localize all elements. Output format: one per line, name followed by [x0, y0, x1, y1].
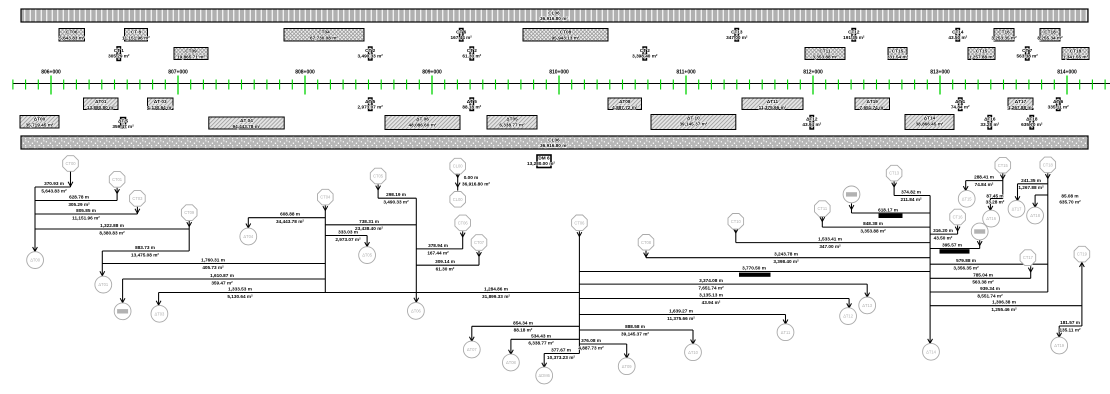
wire CT19 vertical — [1080, 263, 1085, 326]
plan narrow box ΔT12 — [802, 116, 821, 130]
svg-text:305.29 m²: 305.29 m² — [108, 53, 130, 58]
wire 87.45m run to DT16 — [986, 194, 1005, 211]
node ΔT06 — [408, 303, 425, 320]
svg-text:1,284.86 m: 1,284.86 m — [484, 287, 508, 292]
svg-text:CL00: CL00 — [453, 197, 464, 202]
svg-text:ΔT18: ΔT18 — [1026, 117, 1038, 122]
node BM3 — [971, 223, 988, 240]
plan box CT15 — [968, 48, 995, 60]
plan narrow box CT 2 — [358, 47, 384, 60]
svg-text:ΔT 1: ΔT 1 — [955, 99, 966, 104]
wire 3374.08m run to DT13 — [579, 278, 869, 297]
svg-text:3,135.13 m: 3,135.13 m — [699, 293, 723, 298]
wire 1333.53m / 1284.86m long run — [156, 287, 579, 306]
svg-text:ΔT 03: ΔT 03 — [154, 99, 167, 104]
svg-text:377.67 m: 377.67 m — [551, 348, 571, 353]
wire 1306.38m run — [930, 300, 1082, 312]
wire 939.34m run — [930, 286, 1048, 298]
plan box ΔT 03 — [148, 98, 174, 110]
svg-text:3,398.40 m²: 3,398.40 m² — [632, 54, 658, 59]
svg-text:CT04: CT04 — [320, 195, 331, 200]
svg-text:ΔT05: ΔT05 — [506, 117, 518, 122]
node ΔT05 — [359, 247, 376, 264]
svg-text:CT 7: CT 7 — [1022, 48, 1033, 53]
wire 181.57m run to DT19 — [1057, 320, 1082, 337]
svg-text:167.44 m²: 167.44 m² — [451, 35, 473, 40]
wire 618.17m run to BM1 + black bar — [849, 203, 930, 218]
svg-text:806+000: 806+000 — [41, 70, 61, 76]
svg-text:ΔT01: ΔT01 — [98, 282, 109, 287]
svg-text:ΔT08: ΔT08 — [619, 99, 631, 104]
svg-text:36,916.80 m²: 36,916.80 m² — [462, 181, 490, 186]
bottom corridor bar CL06 — [21, 136, 1088, 149]
svg-text:ΔT 5: ΔT 5 — [365, 99, 376, 104]
wire 534.43m run to DT08 — [509, 333, 580, 354]
node CT09 — [181, 205, 197, 221]
svg-text:8,380.83 m²: 8,380.83 m² — [99, 230, 125, 235]
svg-text:39,145.37 m²: 39,145.37 m² — [621, 331, 649, 336]
svg-text:ΔT16: ΔT16 — [984, 117, 996, 122]
svg-text:ΔT16: ΔT16 — [986, 216, 997, 221]
node CT17 — [1020, 250, 1036, 266]
svg-text:1,257.88 m²: 1,257.88 m² — [969, 54, 995, 59]
wire left bus to DT00 — [33, 187, 38, 251]
svg-text:1,610.87 m: 1,610.87 m — [210, 273, 234, 278]
svg-text:CT06: CT06 — [66, 30, 78, 35]
node ΔT01 — [95, 276, 112, 293]
svg-text:2,973.07 m²: 2,973.07 m² — [335, 237, 361, 242]
svg-text:39,145.37 m²: 39,145.37 m² — [679, 121, 707, 126]
svg-text:33.28 m²: 33.28 m² — [980, 122, 999, 127]
svg-text:88.18 m²: 88.18 m² — [514, 328, 533, 333]
plan narrow box CT12 — [843, 29, 865, 42]
svg-text:1,322.88 m: 1,322.88 m — [100, 223, 124, 228]
svg-text:95,943.13 m²: 95,943.13 m² — [552, 35, 580, 40]
svg-text:1,306.38 m: 1,306.38 m — [992, 300, 1016, 305]
plan box CT09 — [174, 48, 208, 60]
top corridor bar CL06 — [21, 9, 1088, 22]
wire CT00 drop + 370.93m run — [35, 172, 73, 194]
node CT19 — [1074, 246, 1090, 262]
svg-text:813+000: 813+000 — [930, 70, 950, 76]
svg-text:43.50 m²: 43.50 m² — [948, 35, 967, 40]
svg-text:CT15: CT15 — [976, 49, 988, 54]
node ΔDM6 — [536, 367, 553, 384]
wire mid bus to DT06 — [414, 198, 419, 302]
svg-text:883.73 m: 883.73 m — [135, 245, 155, 250]
wire 3770.50m run + black bar — [579, 266, 930, 277]
wire CT03 drop + 805.85m run — [35, 207, 140, 221]
svg-text:181.57 m: 181.57 m — [1060, 320, 1080, 325]
svg-text:618.17 m: 618.17 m — [878, 207, 898, 212]
svg-text:808+000: 808+000 — [295, 70, 315, 76]
svg-text:CT06: CT06 — [458, 221, 469, 226]
svg-text:305.29 m²: 305.29 m² — [68, 202, 90, 207]
svg-text:87.45 m: 87.45 m — [986, 194, 1003, 199]
plan narrow box CT14 — [948, 29, 967, 42]
svg-text:635.70 m²: 635.70 m² — [1021, 122, 1043, 127]
wire CT09 drop — [187, 221, 192, 251]
svg-text:CT 1: CT 1 — [114, 48, 125, 53]
wire 1322.88m run — [35, 223, 189, 235]
svg-text:CT10: CT10 — [731, 219, 742, 224]
wire CT04 drop — [323, 206, 328, 293]
svg-text:CL06: CL06 — [548, 138, 560, 143]
node CT01 — [109, 172, 125, 188]
svg-text:CT03: CT03 — [132, 196, 143, 201]
svg-text:5,643.83 m²: 5,643.83 m² — [59, 35, 85, 40]
plan box ΔT08 — [608, 98, 642, 110]
svg-text:CT 2: CT 2 — [467, 48, 478, 53]
svg-text:ΔT18: ΔT18 — [1030, 213, 1041, 218]
wire CT06 drop + 378.94m run — [416, 231, 465, 255]
svg-text:11,151.96 m²: 11,151.96 m² — [122, 35, 150, 40]
node CT04 — [318, 189, 334, 205]
wire CT10 drop + 1533.41m run — [733, 229, 930, 249]
wire CT18 vertical — [1045, 173, 1050, 292]
svg-text:43.94 m²: 43.94 m² — [702, 300, 721, 305]
svg-text:1,333.53 m: 1,333.53 m — [228, 287, 252, 292]
svg-text:8,551.74 m²: 8,551.74 m² — [977, 293, 1003, 298]
svg-text:88.18 m²: 88.18 m² — [462, 105, 481, 110]
svg-text:ΔT14: ΔT14 — [924, 116, 936, 121]
plan box CT04 — [284, 29, 364, 42]
node BM2 — [114, 303, 131, 320]
svg-text:61.30 m²: 61.30 m² — [462, 54, 481, 59]
wire central CT06 drop — [577, 231, 582, 353]
svg-text:ΔT08: ΔT08 — [506, 360, 517, 365]
svg-text:4,887.73 m²: 4,887.73 m² — [578, 345, 604, 350]
wire 854.34m run to DT07 — [469, 320, 579, 341]
svg-text:3,243.78 m: 3,243.78 m — [774, 252, 798, 257]
wire 738.31m run — [325, 219, 416, 231]
svg-text:6,338.77 m²: 6,338.77 m² — [499, 122, 525, 127]
svg-text:309.14 m: 309.14 m — [435, 259, 455, 264]
svg-text:19,865.71 m²: 19,865.71 m² — [177, 54, 205, 59]
svg-text:1,267.88 m²: 1,267.88 m² — [1018, 185, 1044, 190]
node ΔT10 — [685, 344, 702, 361]
svg-text:94,443.78 m²: 94,443.78 m² — [233, 124, 261, 129]
wire 1639.27m run to DT11 — [579, 309, 788, 324]
svg-text:74.84 m²: 74.84 m² — [951, 105, 970, 110]
node BM1 — [843, 186, 860, 203]
plan box CT18 — [1062, 48, 1089, 60]
plan narrow box ΔT 1 — [951, 98, 970, 111]
svg-text:ΔT11: ΔT11 — [767, 99, 779, 104]
svg-text:628.78 m: 628.78 m — [69, 195, 89, 200]
svg-text:ΔT17: ΔT17 — [1012, 207, 1023, 212]
svg-text:888.58 m: 888.58 m — [625, 324, 645, 329]
node ΔT14 — [923, 343, 940, 360]
svg-text:CT11: CT11 — [817, 206, 827, 211]
plan box CT06 — [59, 29, 85, 42]
svg-text:CT18: CT18 — [1043, 163, 1054, 168]
wire 579.88m run — [930, 258, 1048, 270]
svg-text:534.43 m: 534.43 m — [531, 333, 551, 338]
plan narrow box ΔT 5 — [358, 98, 384, 111]
svg-text:ΔT 5: ΔT 5 — [118, 119, 129, 124]
svg-text:ΔT12: ΔT12 — [843, 314, 854, 319]
svg-text:ΔT00: ΔT00 — [30, 258, 41, 263]
svg-text:939.34 m: 939.34 m — [980, 286, 1000, 291]
svg-text:CT00: CT00 — [65, 161, 76, 166]
svg-text:331.54 m²: 331.54 m² — [887, 54, 909, 59]
svg-text:335.11 m²: 335.11 m² — [1048, 105, 1070, 110]
svg-text:812+000: 812+000 — [803, 70, 823, 76]
wire 395.57m run to BM3 + black bar — [930, 240, 982, 254]
svg-text:805.85 m: 805.85 m — [76, 208, 96, 213]
node ΔT13 — [859, 297, 876, 314]
svg-text:8,255.34 m²: 8,255.34 m² — [1037, 35, 1063, 40]
svg-text:1,267.88 m²: 1,267.88 m² — [1008, 105, 1034, 110]
svg-text:13,475.08 m²: 13,475.08 m² — [131, 252, 159, 257]
svg-text:1,255.46 m²: 1,255.46 m² — [991, 307, 1017, 312]
svg-text:CT09: CT09 — [184, 210, 195, 215]
svg-text:DM 6: DM 6 — [538, 156, 550, 161]
svg-text:36,916.80 m²: 36,916.80 m² — [540, 143, 568, 148]
svg-text:635.70 m²: 635.70 m² — [1059, 199, 1081, 204]
svg-text:CT17: CT17 — [1023, 255, 1034, 260]
wire CT15 drop — [1000, 174, 1005, 199]
svg-text:ΔT07: ΔT07 — [467, 347, 478, 352]
plan box ΔT01 — [84, 98, 119, 110]
node CT10 — [728, 214, 744, 230]
svg-text:359.47 m²: 359.47 m² — [112, 124, 134, 129]
svg-text:1,130.64 m²: 1,130.64 m² — [148, 105, 174, 110]
svg-text:CL00: CL00 — [453, 164, 464, 169]
svg-text:CT 8: CT 8 — [131, 30, 142, 35]
svg-text:5,130.64 m²: 5,130.64 m² — [227, 294, 253, 299]
node ΔT18 — [1027, 207, 1044, 224]
node ΔT15 — [958, 190, 975, 207]
svg-text:ΔT05: ΔT05 — [362, 253, 373, 258]
svg-text:CT 2: CT 2 — [640, 48, 651, 53]
plan narrow box CT 2 — [462, 47, 481, 60]
plan box ΔT19 — [855, 98, 890, 110]
node CT15 — [995, 157, 1011, 173]
svg-text:ΔT14: ΔT14 — [926, 349, 937, 354]
svg-text:7,651.74 m²: 7,651.74 m² — [860, 105, 886, 110]
plan box CT18 — [1037, 29, 1063, 42]
svg-text:CT13: CT13 — [889, 171, 900, 176]
svg-text:6,338.77 m²: 6,338.77 m² — [528, 341, 554, 346]
svg-text:298.19 m: 298.19 m — [386, 192, 406, 197]
plan narrow box CT 7 — [1017, 47, 1039, 60]
svg-text:333.03 m: 333.03 m — [338, 230, 358, 235]
svg-text:316.20 m: 316.20 m — [933, 228, 953, 233]
wire 1760.31m run — [102, 258, 325, 270]
wire 1610.87m run to BM2 — [120, 273, 325, 303]
plan box ΔT05 — [487, 116, 537, 130]
node ΔT00 — [27, 252, 44, 269]
svg-text:ΔT03: ΔT03 — [155, 311, 166, 316]
svg-text:3,374.08 m: 3,374.08 m — [699, 278, 723, 283]
svg-text:405.73 m²: 405.73 m² — [202, 265, 224, 270]
plan narrow box ΔT 5 — [462, 98, 481, 111]
svg-text:CT13: CT13 — [731, 30, 743, 35]
plan box ΔT17 — [1008, 98, 1034, 110]
wire 377.67m run to DM6 — [542, 348, 580, 368]
plan box CT 8 — [122, 29, 150, 42]
node ΔT09 — [618, 358, 635, 375]
svg-text:11,375.66 m²: 11,375.66 m² — [759, 105, 787, 110]
svg-text:809+000: 809+000 — [422, 70, 442, 76]
svg-text:3,490.33 m²: 3,490.33 m² — [383, 200, 409, 205]
plan narrow box CT 1 — [108, 47, 130, 61]
svg-text:785.04 m: 785.04 m — [973, 272, 993, 277]
plan narrow box ΔT 6 — [1048, 98, 1070, 111]
svg-text:CT18: CT18 — [1070, 49, 1082, 54]
svg-text:ΔT 06: ΔT 06 — [416, 117, 429, 122]
svg-text:738.31 m: 738.31 m — [359, 219, 379, 224]
svg-text:43.50 m²: 43.50 m² — [934, 236, 953, 241]
node CT06 — [572, 215, 588, 231]
svg-text:CT05: CT05 — [373, 174, 384, 179]
svg-text:31,899.33 m²: 31,899.33 m² — [482, 294, 510, 299]
wire CT05 drop + 298.19m run — [376, 184, 417, 204]
svg-text:CT12: CT12 — [848, 30, 860, 35]
wire 376.08m run to DT09 — [578, 338, 629, 358]
svg-text:ΔT 10: ΔT 10 — [687, 116, 700, 121]
node CL00 — [450, 192, 466, 208]
plan box CT08 — [523, 29, 608, 42]
wire right bus to DT14 — [928, 196, 933, 344]
centerline / chainage axis — [13, 83, 1110, 85]
node CT08 — [638, 235, 654, 251]
wire 3135.13m run to DT12 — [579, 293, 851, 308]
svg-text:CT18: CT18 — [1044, 30, 1056, 35]
svg-text:ΔT10: ΔT10 — [688, 350, 699, 355]
node ΔT11 — [777, 324, 794, 341]
svg-text:3,770.50 m: 3,770.50 m — [742, 266, 766, 271]
wire CT08 drop + 3243.78m run — [644, 251, 931, 264]
svg-text:ΔT09: ΔT09 — [622, 364, 633, 369]
svg-text:11,375.66 m²: 11,375.66 m² — [667, 316, 695, 321]
svg-text:CT15: CT15 — [892, 49, 904, 54]
wire CT07 drop + 309.14m run — [416, 251, 481, 272]
svg-text:347.00 m²: 347.00 m² — [726, 35, 748, 40]
wire CT01 drop + 628.78m run — [35, 188, 120, 207]
plan box ΔT14 — [905, 115, 954, 130]
station labels — [41, 70, 1077, 76]
wire CT16 drop + 316.20m run — [930, 226, 960, 241]
svg-text:ΔT04: ΔT04 — [243, 234, 254, 239]
svg-text:CT08: CT08 — [560, 30, 572, 35]
svg-text:848.38 m: 848.38 m — [863, 221, 883, 226]
svg-text:288.41 m: 288.41 m — [974, 175, 994, 180]
svg-text:167.44 m²: 167.44 m² — [427, 250, 449, 255]
node CT06 — [455, 215, 471, 231]
node CL00 — [450, 158, 466, 174]
svg-text:135.11 m²: 135.11 m² — [1059, 327, 1081, 332]
plan box ΔT 04 — [209, 117, 284, 129]
svg-text:35,719.45 m²: 35,719.45 m² — [26, 122, 54, 127]
svg-text:191.35 m²: 191.35 m² — [843, 35, 865, 40]
svg-text:ΔT13: ΔT13 — [862, 303, 873, 308]
svg-text:7,651.74 m²: 7,651.74 m² — [698, 286, 724, 291]
node ΔT08 — [503, 354, 520, 371]
wire 608.88m run to DT04 — [246, 212, 325, 228]
wire CT11 drop + 848.38m run — [820, 217, 930, 234]
svg-text:CT15: CT15 — [998, 163, 1009, 168]
svg-text:CT16: CT16 — [953, 215, 964, 220]
svg-text:374.82 m: 374.82 m — [901, 190, 921, 195]
svg-text:33.28 m²: 33.28 m² — [986, 200, 1005, 205]
svg-text:ΔT 5: ΔT 5 — [467, 99, 478, 104]
node CT00 — [63, 156, 79, 172]
plan box CT11 — [805, 48, 845, 60]
svg-text:CT16: CT16 — [998, 30, 1010, 35]
svg-text:85.08 m: 85.08 m — [1061, 193, 1078, 198]
node CT18 — [1040, 157, 1056, 173]
svg-text:CT 2: CT 2 — [365, 48, 376, 53]
svg-text:1,760.31 m: 1,760.31 m — [201, 258, 225, 263]
svg-text:11,151.96 m²: 11,151.96 m² — [72, 215, 100, 220]
node CT03 — [130, 191, 146, 207]
svg-text:ΔT 6: ΔT 6 — [1053, 99, 1064, 104]
plan box ΔT11 — [742, 98, 803, 110]
svg-text:4,887.72 m²: 4,887.72 m² — [612, 105, 638, 110]
plan box DM 6 — [527, 155, 555, 168]
svg-text:376.08 m: 376.08 m — [581, 338, 601, 343]
node CT05 — [370, 168, 386, 184]
svg-text:ΔT19: ΔT19 — [866, 99, 878, 104]
wire run to DT18 — [1033, 193, 1081, 207]
svg-text:ΔT19: ΔT19 — [1054, 343, 1065, 348]
svg-text:3,353.88 m²: 3,353.88 m² — [860, 229, 886, 234]
svg-text:23,438.40 m²: 23,438.40 m² — [355, 226, 383, 231]
plan box ΔT00 — [20, 116, 59, 129]
svg-text:CT07: CT07 — [474, 240, 485, 245]
svg-text:CT19: CT19 — [1077, 252, 1088, 257]
node CT16 — [950, 209, 966, 225]
svg-text:359.47 m²: 359.47 m² — [211, 280, 233, 285]
plan narrow box ΔT18 — [1021, 116, 1043, 130]
svg-text:2,973.07 m²: 2,973.07 m² — [358, 105, 384, 110]
wire 883.73m run to DT01 — [100, 245, 189, 276]
svg-text:CT04: CT04 — [318, 30, 330, 35]
svg-text:579.88 m: 579.88 m — [956, 258, 976, 263]
svg-text:ΔT15: ΔT15 — [962, 196, 973, 201]
svg-text:ΔDM6: ΔDM6 — [539, 373, 551, 378]
svg-text:10,373.23 m²: 10,373.23 m² — [547, 355, 575, 360]
svg-text:CT08: CT08 — [641, 240, 652, 245]
svg-text:811+000: 811+000 — [676, 70, 696, 76]
svg-text:38,866.45 m²: 38,866.45 m² — [916, 121, 944, 126]
wire 333.03m run to DT05 — [325, 230, 369, 247]
plan narrow box ΔT 5 — [112, 118, 134, 130]
plan box ΔT 06 — [385, 116, 460, 130]
svg-text:CT14: CT14 — [952, 30, 964, 35]
svg-text:CT 6: CT 6 — [456, 30, 467, 35]
node ΔT12 — [840, 308, 857, 325]
svg-text:563.38 m²: 563.38 m² — [1017, 54, 1039, 59]
svg-text:36,916.80 m²: 36,916.80 m² — [540, 16, 568, 21]
svg-text:74.84 m²: 74.84 m² — [975, 182, 994, 187]
svg-text:3,490.33 m²: 3,490.33 m² — [358, 54, 384, 59]
svg-text:ΔT17: ΔT17 — [1015, 99, 1027, 104]
svg-text:0.00 m: 0.00 m — [464, 175, 479, 180]
svg-text:CL06: CL06 — [548, 10, 560, 15]
wire 785.04m run to CT17 — [930, 266, 1033, 285]
plan box CT16 — [991, 29, 1017, 42]
svg-text:CT09: CT09 — [185, 49, 197, 54]
svg-text:854.34 m: 854.34 m — [513, 320, 533, 325]
plan box CT15 — [887, 48, 909, 60]
svg-text:ΔT06: ΔT06 — [411, 309, 422, 314]
node CT13 — [886, 165, 902, 181]
svg-text:370.93 m: 370.93 m — [44, 181, 64, 186]
